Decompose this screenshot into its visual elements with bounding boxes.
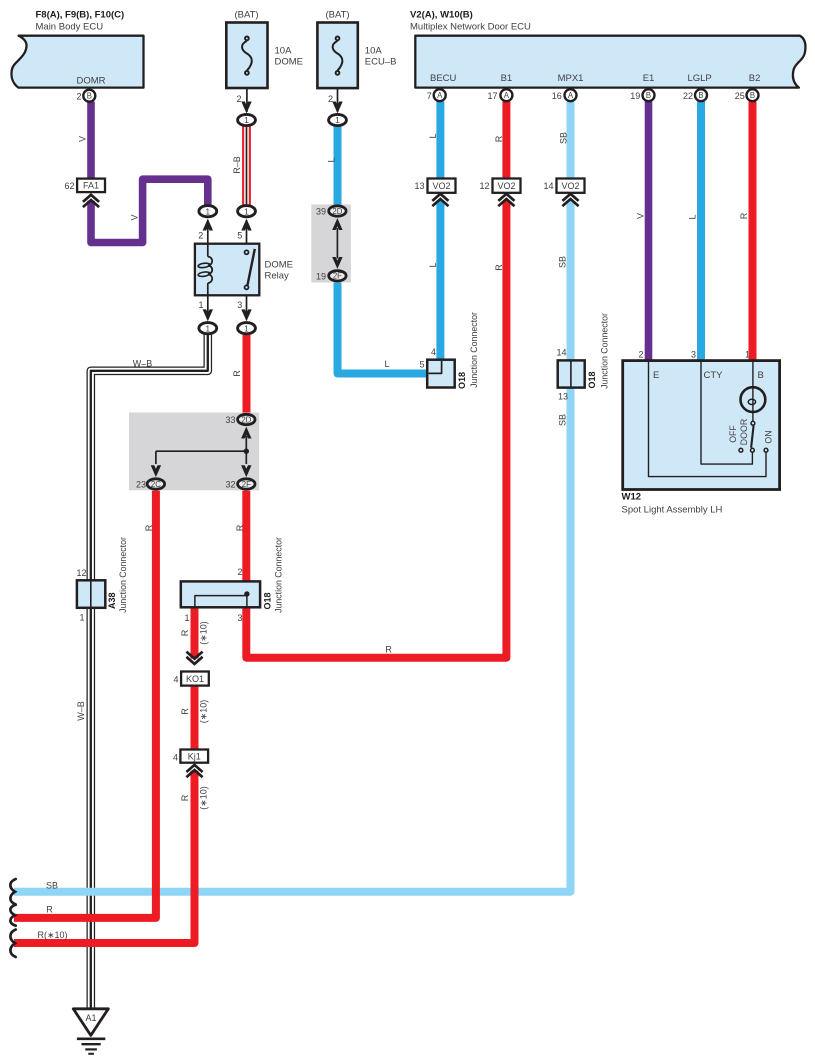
svg-text:Junction Connector: Junction Connector (469, 312, 479, 388)
svg-text:E: E (653, 370, 659, 381)
svg-text:SB: SB (558, 256, 568, 268)
svg-text:R: R (494, 264, 504, 271)
svg-text:B1: B1 (501, 73, 513, 84)
svg-text:12: 12 (76, 568, 86, 578)
svg-text:3: 3 (237, 300, 242, 310)
svg-text:2: 2 (638, 350, 643, 360)
svg-text:B: B (758, 370, 764, 381)
svg-text:ON: ON (763, 430, 773, 443)
svg-text:2D: 2D (241, 415, 251, 424)
svg-text:1: 1 (244, 323, 249, 333)
svg-text:(∗10): (∗10) (199, 621, 209, 645)
svg-text:17: 17 (487, 91, 497, 101)
svg-text:ECU–B: ECU–B (365, 57, 397, 68)
svg-text:W–B: W–B (76, 701, 86, 721)
svg-text:62: 62 (64, 181, 74, 191)
svg-text:14: 14 (543, 181, 553, 191)
svg-text:R: R (739, 212, 749, 219)
svg-text:5: 5 (237, 230, 242, 240)
svg-text:F8(A), F9(B), F10(C): F8(A), F9(B), F10(C) (36, 10, 125, 21)
svg-text:R: R (180, 629, 190, 636)
svg-text:V2(A), W10(B): V2(A), W10(B) (410, 10, 473, 21)
svg-text:MPX1: MPX1 (558, 73, 584, 84)
svg-text:4: 4 (431, 347, 436, 357)
svg-text:2C: 2C (151, 480, 161, 489)
svg-text:1: 1 (244, 115, 249, 125)
svg-text:R–B: R–B (232, 156, 242, 174)
svg-text:B: B (750, 91, 755, 100)
svg-text:SB: SB (559, 132, 569, 144)
svg-text:VO2: VO2 (432, 181, 450, 191)
svg-text:4: 4 (173, 675, 178, 685)
svg-text:OFF: OFF (728, 425, 738, 443)
svg-text:Junction Connector: Junction Connector (274, 537, 284, 613)
svg-text:DOMR: DOMR (76, 76, 105, 87)
svg-text:VO2: VO2 (497, 181, 515, 191)
svg-text:R: R (494, 135, 504, 142)
svg-text:DOME: DOME (265, 260, 294, 271)
svg-text:DOME: DOME (275, 57, 304, 68)
svg-text:A: A (437, 91, 443, 100)
svg-text:B: B (698, 91, 703, 100)
svg-text:W–B: W–B (133, 359, 153, 369)
svg-text:2: 2 (237, 567, 242, 577)
svg-text:V: V (130, 214, 140, 220)
svg-text:O18: O18 (587, 371, 597, 388)
svg-text:VO2: VO2 (561, 181, 579, 191)
svg-text:2F: 2F (242, 480, 251, 489)
svg-text:R: R (144, 524, 154, 531)
svg-text:O18: O18 (457, 372, 467, 389)
svg-text:1: 1 (244, 206, 249, 216)
svg-text:L: L (688, 214, 698, 219)
svg-text:KO1: KO1 (186, 674, 204, 684)
svg-text:R: R (232, 370, 242, 377)
svg-text:E1: E1 (643, 73, 655, 84)
svg-text:33: 33 (225, 415, 235, 425)
svg-text:1: 1 (205, 206, 210, 216)
svg-text:(∗10): (∗10) (199, 786, 209, 810)
svg-text:23: 23 (136, 480, 146, 490)
svg-text:32: 32 (225, 480, 235, 490)
svg-text:SB: SB (558, 414, 568, 426)
svg-text:L: L (327, 157, 337, 162)
svg-text:10A: 10A (365, 46, 383, 57)
svg-text:14: 14 (556, 348, 566, 358)
svg-text:L: L (428, 133, 438, 138)
svg-text:19: 19 (630, 91, 640, 101)
svg-text:(BAT): (BAT) (234, 10, 258, 21)
svg-text:22: 22 (683, 91, 693, 101)
svg-text:A: A (568, 91, 574, 100)
svg-text:V: V (77, 136, 87, 142)
svg-text:A: A (504, 91, 510, 100)
svg-text:A1: A1 (85, 1013, 96, 1023)
svg-text:13: 13 (414, 181, 424, 191)
svg-text:L: L (428, 262, 438, 267)
svg-text:Multiplex Network Door ECU: Multiplex Network Door ECU (410, 22, 531, 33)
svg-text:R: R (180, 708, 190, 715)
svg-text:1: 1 (184, 613, 189, 623)
svg-text:B: B (646, 91, 651, 100)
svg-text:7: 7 (427, 91, 432, 101)
svg-text:19: 19 (316, 271, 326, 281)
svg-text:V: V (636, 213, 646, 219)
svg-text:SB: SB (46, 880, 58, 890)
svg-text:1: 1 (335, 115, 340, 125)
svg-text:L: L (384, 359, 389, 369)
svg-text:2D: 2D (332, 207, 342, 216)
svg-text:3: 3 (237, 613, 242, 623)
svg-text:Spot Light Assembly LH: Spot Light Assembly LH (622, 504, 723, 515)
svg-text:13: 13 (558, 392, 568, 402)
svg-text:1: 1 (205, 323, 210, 333)
svg-text:R: R (180, 794, 190, 801)
svg-text:R: R (46, 905, 53, 915)
svg-text:39: 39 (316, 207, 326, 217)
svg-text:3: 3 (691, 350, 696, 360)
svg-text:LGLP: LGLP (687, 73, 711, 84)
svg-text:2: 2 (328, 94, 333, 104)
svg-text:2: 2 (236, 94, 241, 104)
svg-text:2: 2 (76, 92, 81, 102)
svg-text:W12: W12 (622, 492, 642, 503)
svg-text:B2: B2 (749, 73, 761, 84)
svg-text:BECU: BECU (430, 73, 457, 84)
svg-text:2: 2 (198, 230, 203, 240)
svg-text:FA1: FA1 (83, 181, 99, 191)
svg-text:Relay: Relay (265, 271, 290, 282)
svg-text:1: 1 (745, 350, 750, 360)
svg-text:25: 25 (735, 91, 745, 101)
svg-text:Junction Connector: Junction Connector (118, 537, 128, 613)
svg-text:2F: 2F (333, 272, 342, 281)
svg-text:R: R (385, 645, 392, 655)
svg-text:A38: A38 (107, 592, 117, 609)
svg-text:B: B (87, 92, 92, 101)
svg-text:4: 4 (173, 753, 178, 763)
svg-text:5: 5 (419, 360, 424, 370)
svg-text:O18: O18 (262, 592, 272, 609)
svg-text:Kj1: Kj1 (188, 751, 201, 761)
svg-text:1: 1 (79, 613, 84, 623)
svg-text:DOOR: DOOR (739, 419, 749, 445)
svg-text:(∗10): (∗10) (199, 700, 209, 724)
svg-text:(BAT): (BAT) (325, 10, 349, 21)
svg-text:10A: 10A (275, 46, 293, 57)
svg-text:Main Body ECU: Main Body ECU (36, 22, 104, 33)
svg-text:Junction Connector: Junction Connector (599, 313, 609, 389)
svg-text:R: R (235, 524, 245, 531)
svg-text:12: 12 (479, 181, 489, 191)
svg-text:CTY: CTY (704, 370, 724, 381)
svg-text:1: 1 (198, 300, 203, 310)
svg-text:16: 16 (552, 91, 562, 101)
svg-text:R(∗10): R(∗10) (37, 930, 67, 940)
